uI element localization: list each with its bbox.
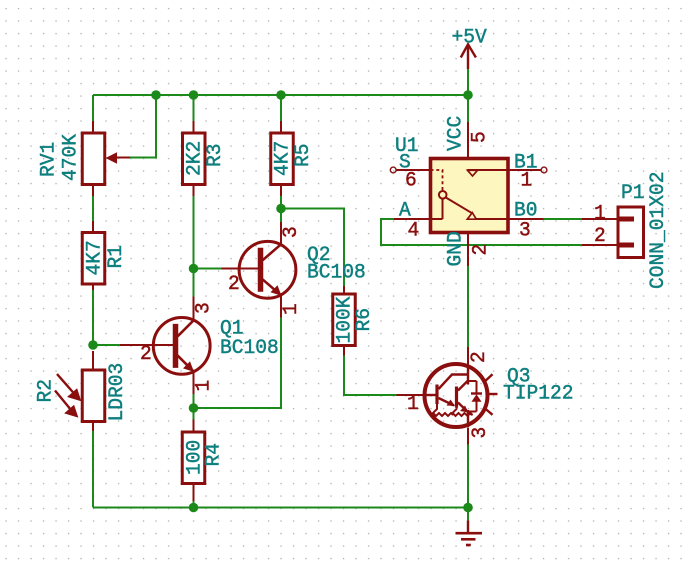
svg-text:1: 1 [280,303,304,315]
power symbol +5V [461,44,476,69]
transistor Q1 [153,318,210,375]
Q2 emitter pin [280,296,282,318]
wire R3 bottom to node [193,196,195,269]
P1 pin 2 stub [618,243,634,248]
Q3 collector pin [467,347,469,365]
wire node to R4 top [193,408,195,420]
wire U1 A to P1 pin2 [381,219,582,245]
junction rail-R3 [189,90,199,100]
svg-text:2: 2 [140,343,152,367]
wire bottom ground rail [93,507,468,509]
R4 pin bottom [193,484,195,502]
svg-text:R6: R6 [353,308,377,332]
svg-text:VCC: VCC [444,116,468,151]
wire R2 bottom to ground rail [92,431,94,508]
svg-text:2: 2 [594,225,606,249]
wire rail to R5 top [280,95,282,121]
R3 pin bottom [193,185,195,197]
wire RV1 wiper feedback [130,95,156,158]
junction R4-ground rail [189,503,199,513]
svg-text:470K: 470K [59,133,83,181]
wire rail to R3 top [193,95,195,121]
svg-text:2: 2 [468,351,492,363]
R5 pin top [280,121,282,133]
transistor Q2 [239,241,296,298]
P1 pin 1 stub [618,217,634,222]
wire R1 bottom to node [92,290,94,346]
R2 light arrows [55,374,80,416]
wire R5 bottom to node [280,196,282,209]
svg-text:R2: R2 [34,379,58,403]
RV1 pin bottom [92,185,94,197]
U1 pin 1 open end [541,167,547,173]
photoresistor R2 body [82,370,105,422]
svg-text:4K7: 4K7 [83,240,107,275]
transistor Q3 darlington [425,364,498,427]
U1 pin 6 open end [390,167,396,173]
U1 internal switch [431,170,509,219]
R3 pin top [193,121,195,133]
R6 pin top [343,286,345,294]
wire R4 bottom to rail [193,501,195,508]
svg-text:1: 1 [594,202,606,226]
ground symbol [456,508,483,546]
svg-text:2: 2 [469,244,493,256]
svg-text:2: 2 [228,273,240,297]
svg-text:GND: GND [444,231,468,266]
svg-text:1: 1 [192,380,216,392]
svg-text:CONN_01X02: CONN_01X02 [647,171,671,289]
R6 pin bottom [343,347,345,356]
Q1 emitter pin [193,372,195,395]
P1 pin 1 [582,218,618,220]
svg-text:3: 3 [469,427,493,439]
junction rail-+5V [463,90,473,100]
svg-text:6: 6 [405,169,417,193]
R2 pin bottom [92,422,94,431]
svg-text:LDR03: LDR03 [106,363,130,422]
R2 pin top [92,351,94,370]
resistor R5 body [271,133,294,185]
svg-text:BC108: BC108 [220,337,279,361]
svg-text:RV1: RV1 [37,142,61,177]
wire node to Q1 collector [193,269,195,297]
svg-text:P1: P1 [621,182,645,206]
Q3 base pin [397,394,425,396]
junction R1/R2/Q1-base node [88,340,98,350]
RV1 wiper pin [116,157,130,159]
wire node to Q1 base [93,344,120,346]
wire node to R6 top [281,209,344,287]
junction Q1-emitter/R4/Q2-emitter node [189,403,199,413]
svg-text:3: 3 [519,219,531,243]
IC U1 body [431,159,509,233]
R1 pin top [92,221,94,232]
R1 pin bottom [92,284,94,290]
U1 pin 1 B1 [508,169,541,171]
svg-text:R3: R3 [204,143,228,167]
connector P1 body [618,207,644,258]
wire U1 GND to Q3 collector [467,266,469,347]
Q1 collector pin [193,297,195,321]
svg-text:TIP122: TIP122 [503,382,574,406]
wire Q2 emitter link [194,318,282,409]
svg-text:3: 3 [280,226,304,238]
U1 pin 6 S [396,169,430,171]
potentiometer RV1 body [82,133,105,185]
svg-text:R1: R1 [105,245,129,269]
wire +5V to rail [467,69,469,95]
wire rail to U1 VCC [467,95,469,122]
U1 pin 5 VCC [467,122,469,159]
RV1 wiper arrow [106,152,118,163]
junction rail-wiper [151,90,161,100]
wire node to Q2 base [194,268,222,270]
svg-text:BC108: BC108 [307,261,366,285]
wire RV1 bottom to R1 top [92,196,94,221]
svg-text:+5V: +5V [452,26,487,50]
svg-text:R4: R4 [202,443,226,467]
resistor R3 body [183,133,206,185]
junction rail-R5 [276,90,286,100]
junction R3/Q2-base/Q1-collector node [189,264,199,274]
R5 pin bottom [280,185,282,197]
resistor R1 body [82,233,105,285]
wire rail to RV1 top [92,95,94,121]
wire Q1 emitter to node [193,394,195,408]
R4 pin top [193,420,195,433]
svg-text:4: 4 [408,219,420,243]
wire node to Q2 collector [280,209,282,223]
resistor R6 body [333,294,356,346]
wire top +5V rail [93,94,468,96]
Q3 emitter pin [467,428,469,445]
U1 pin 2 GND [467,233,469,267]
resistor R4 body [182,432,205,484]
Q2 base pin [222,268,259,270]
junction R5/Q2-collector/R6 node [276,204,286,214]
Q2 collector pin [280,222,282,245]
svg-text:R5: R5 [292,143,316,167]
U1 pin 4 A [394,218,431,220]
wire Q3 emitter to rail [467,445,469,508]
junction Q3-emitter ground rail [463,503,473,513]
svg-text:5: 5 [468,131,492,143]
wire R6 bottom to Q3 base [344,356,397,396]
svg-text:1: 1 [407,393,419,417]
RV1 pin top [92,121,94,133]
svg-text:3: 3 [192,302,216,314]
svg-text:1: 1 [521,169,533,193]
Q1 base pin [120,344,173,346]
P1 pin 2 [582,244,618,246]
wire U1 B0 to P1 pin1 [544,218,583,220]
U1 pin 3 B0 [508,218,544,220]
